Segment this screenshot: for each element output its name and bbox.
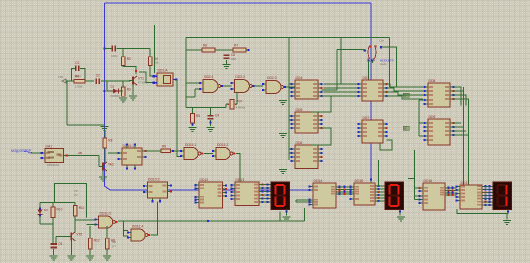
wire DD9 out 2 [454,130,467,132]
svg-text:Cur: Cur [379,39,384,43]
wire DD16 feed vert [414,150,416,200]
svg-text:DD17: DD17 [461,181,470,185]
svg-text:R11: R11 [79,206,85,210]
current source G1 [364,39,394,66]
ground R3 [119,98,127,103]
wire bus to DD17 b [468,99,470,190]
wire DD13-HG1 4 [263,198,272,200]
7-segment display HG2 [385,182,404,210]
svg-text:R8: R8 [108,139,112,143]
wire DD9 in2 [419,135,423,137]
wire DD13-HG1 0 [263,184,272,186]
wire DD14-DD15 0 [340,186,351,188]
wire cur bottom pin1 [368,61,370,81]
wire DD13-HG1 1 [263,187,272,189]
wire C6 down [226,60,228,64]
wire col1 stub y116 [289,115,292,117]
resistor R10 [51,207,62,218]
wire DD9 in stub [419,122,423,124]
capacitor C7 [111,46,118,58]
resistor R5 [191,114,201,123]
wire rail up a [279,212,281,221]
counter DD5 [290,108,322,133]
ground R12 [86,256,94,261]
wire base from C5 [55,236,57,243]
wire DD8 out 2 [454,95,467,106]
nand gate DD2:1 [199,75,223,93]
resistor R13 [105,238,115,249]
label HB [78,151,82,155]
wire DD2:1 in2 [195,88,200,90]
wire DD17-HG3 6 [486,204,494,206]
wire DD11:4 in feed [124,221,128,236]
wire DD8 out 1 [454,91,464,106]
counter DD4 [290,76,322,99]
wire D1 left [107,81,111,91]
logic state pin blue rail [103,47,105,92]
wire C4 top [210,108,212,115]
resistor R3 [121,87,131,96]
wire cur left pin [337,48,365,50]
wire R11 top [74,202,76,205]
7-segment display HG1 [271,182,290,210]
svg-text:DD11:4: DD11:4 [132,225,143,229]
wire R13 top [106,226,108,238]
svg-text:DD10:2: DD10:2 [148,178,160,182]
wire DD13 clk [239,179,241,182]
wire to TA2 base [98,156,100,167]
logic probe 0 a [403,93,409,97]
wire crystal left [226,103,228,105]
svg-text:DD2:2: DD2:2 [235,75,245,79]
svg-text:1.00k: 1.00k [75,85,83,89]
wire DD8-DD9 chain [419,99,423,101]
wire DD15-HG2 3 [379,194,386,196]
resistor R4 [148,57,159,66]
logic state pin VT1 c [135,70,137,72]
wire DD8 out 0 [454,87,462,106]
svg-text:K554CA3: K554CA3 [47,163,59,167]
svg-text:R10: R10 [57,208,63,212]
wire DD5 chain [311,128,331,145]
wire C1 right [80,68,85,79]
nand gate DD11:2 [212,143,235,160]
nand gate DD2:2 [230,75,254,93]
wire DD14 feed [295,200,297,202]
svg-text:DD12: DD12 [200,178,209,182]
wire C5 down [53,249,55,255]
wire DD2:3 out [286,86,295,88]
wire HG3 common [457,209,508,214]
logic probe 0 b [403,126,409,130]
wire DD17-HG3 1 [486,188,494,190]
ground VT1 [129,96,137,101]
svg-text:DD11:1: DD11:1 [185,143,196,147]
wire R8 to TA2 [104,148,106,163]
wire col1 stub y149 [289,148,292,150]
flip-flop DD10:2 [143,178,172,203]
svg-text:DD10:1: DD10:1 [123,144,135,148]
resistor R6 [202,44,215,52]
wire VD2 down [39,216,41,224]
wire DD17-HG3 4 [486,198,494,200]
capacitor C4 [208,114,220,120]
wire gate in2 [87,223,96,225]
svg-text:R1: R1 [75,75,79,79]
counter DD17 [455,181,486,209]
ground TA2 [99,177,107,182]
blue bus horizontal to DD12/DD14 [110,189,313,191]
wire DD8 out 3 [454,99,469,106]
wire DD17-HG3 0 [486,185,494,187]
wire osc left rail [185,50,187,108]
wire DD2:2 out [254,85,263,87]
svg-text:DD13: DD13 [236,178,245,182]
wire DD15-HG2 1 [379,188,386,190]
wire DD17-HG3 3 [486,195,494,197]
wire DD16 top corner [408,178,420,188]
diode D1 [111,85,121,99]
wire DD17-HG3 5 [486,201,494,203]
wire DD9 out 1 [454,126,464,128]
wire R10 top [52,202,54,207]
wire DD9 out 3 [454,134,469,136]
wire DA1 out [67,155,99,157]
wire in2 link [186,96,195,98]
wire R8 top [104,131,106,138]
svg-text:HB: HB [78,151,82,155]
logic state pin C4 [209,121,211,123]
wire R11 to VT5 [74,216,76,232]
wire supply to C7 [105,48,112,50]
logic state HG1 [286,211,288,213]
logic state long rail [207,220,209,222]
wire cur bottom pin2 [371,61,373,64]
resistor R1 [74,75,85,89]
nand gate DD11:4 [127,225,150,242]
svg-text:DD2:3: DD2:3 [267,76,277,80]
counter DD8 [423,79,454,107]
svg-text:DD11:2: DD11:2 [217,143,228,147]
ground C4 [207,127,215,132]
label test point [74,189,79,197]
wire col2 top feed [340,38,342,85]
svg-text:DD6: DD6 [296,141,303,145]
7-segment display HG3 [493,182,512,210]
wire col3 left vert [418,100,420,136]
wire DD13-HG1 2 [263,191,272,193]
wire R4 to DD1 in [150,66,154,77]
wire feedback up to DD2:2 [236,93,238,105]
svg-text:VT5: VT5 [76,232,82,236]
logic state HG2 [399,211,401,213]
wire R6 feed vertical [185,38,187,51]
wire col1 stub y84 [289,83,292,85]
transistor VT5 [67,232,82,241]
wire crystal left elbow [225,104,227,108]
svg-text:DD16: DD16 [424,179,433,183]
svg-text:R6: R6 [203,44,207,48]
nand gate DD2:3 [262,76,286,94]
resistor R2 [121,57,131,66]
wire R12 down [89,249,91,255]
wire DD7b chain [380,140,392,150]
wire TA2 to DD10:1 [108,152,119,154]
capacitor C1 [74,61,81,78]
wire DD15 out drop [377,160,379,186]
ground C6 [223,64,231,69]
wire TA2 base stub [99,166,101,168]
wire DD7-DD8 ladder 0 [387,84,424,87]
svg-text:R3: R3 [127,88,131,92]
svg-text:TPA: TPA [58,75,63,79]
wire crystal right [236,103,238,105]
wire DD16 in a [415,195,420,197]
svg-text:R12: R12 [94,239,100,243]
resistor R12 [88,238,99,249]
wire DD14-DD15 2 [340,191,351,193]
wire DD17-HG3 2 [486,192,494,194]
wire DD16-DD17 2 [449,192,457,194]
wire DD2:1 in1 [186,82,200,84]
label bottom note [112,240,117,248]
wire R10 down [52,218,54,244]
comparator DA1 [41,144,68,162]
svg-text:DD2:1: DD2:1 [204,75,214,79]
counter DD7b [357,116,387,143]
resistor R8 [103,138,113,148]
svg-text:НВ: НВ [112,240,116,244]
wire cur right pin [381,47,396,87]
svg-text:DD14: DD14 [314,179,323,183]
flip-flop DD10:1 [117,143,146,169]
wire C1 left [72,68,75,81]
capacitor C5 body [51,243,57,248]
wire DD13-HG1 3 [263,194,272,196]
wire DD14 in a [296,199,310,201]
blue net top border [105,2,372,4]
counter DD13 [230,178,263,206]
wire bus to DD17 a [463,87,465,187]
ground input rail [101,126,109,131]
svg-text:DD4: DD4 [296,76,303,80]
wire col2 stub y96 [324,95,358,97]
resistor R11 [73,205,84,216]
wire R11 tap to gate [75,219,95,221]
wire col2 stub y84 [324,83,358,85]
wire DD2:1 out [223,85,231,87]
wire osc feedback rail [186,107,226,109]
svg-text:C5: C5 [58,242,62,246]
svg-text:mode: mode [380,62,387,66]
wire label to DA1 [31,152,42,154]
svg-text:DD5: DD5 [296,108,303,112]
svg-text:KD503: KD503 [111,94,121,98]
wire in2 drop [194,89,196,97]
wire VT5 emitter [70,240,72,255]
svg-text:DD15: DD15 [355,179,364,183]
svg-text:R9: R9 [162,144,166,148]
wire HG1 common [286,209,288,215]
wire HG3 gnd stub [506,214,508,220]
svg-text:C4: C4 [215,114,219,118]
wire DD13-HG1 5 [263,201,272,203]
capacitor C6 [224,53,237,61]
svg-text:D2: D2 [44,208,48,212]
wire DD16-DD17 0 [449,187,457,189]
wire R4 top [149,49,151,57]
svg-text:DD7: DD7 [363,116,370,120]
nand gate DD11:1 [180,143,203,160]
wire DD9 out 0 [454,122,462,124]
wire cur-dd4 vert [336,49,338,90]
counter DD15 [349,178,379,205]
wire DD16-DD17 3 [449,194,457,196]
svg-text:C2: C2 [96,74,100,78]
capacitor C5 plate [51,242,63,248]
wire DD16 in b [415,199,420,201]
wire bottom gnd rail [67,124,104,126]
ground R13 [103,256,111,261]
svg-text:R2: R2 [127,57,131,61]
wire DD7-DD8 ladder 1 [387,88,424,91]
wire DD14-DD15 1 [340,189,351,191]
svg-text:680: 680 [231,57,236,61]
counter DD6 [290,141,322,169]
wire DD15-HG2 5 [379,200,386,202]
svg-text:D1: D1 [111,85,115,89]
zener diode VD2 [38,208,49,217]
wire R5 down [192,123,194,126]
ground HG2 [397,217,405,222]
svg-text:TA2: TA2 [108,163,114,167]
counter DD14 [308,179,340,208]
wire rail up b [304,208,306,221]
wire R6 left [186,49,202,51]
svg-text:R5: R5 [196,114,200,118]
counter DD16 [418,179,449,210]
wire col1 left bus [288,38,290,161]
ground HG1 [283,217,291,222]
counter DD12 [194,178,227,208]
wire DD16-DD17 1 [449,190,457,192]
logic state pin R9 [172,150,174,152]
wire DD11:1 out [204,153,214,155]
wire DD4 chain [311,96,331,112]
wire long clock rail [118,220,305,222]
wire cur to DD4 [322,89,338,91]
svg-text:DD9: DD9 [429,115,436,119]
blue net left vertical [105,3,111,190]
wire DD1:A supply [154,25,156,73]
wire VD2 to gnd rail [40,223,53,225]
crystal ZQ1 [227,99,245,110]
svg-text:DD8: DD8 [429,79,436,83]
wire C2 to base [101,80,131,82]
nand gate DD11:3 [95,212,118,229]
wire to DD6 column [389,38,391,88]
svg-text:100n: 100n [111,54,118,58]
wire col1 stub y120 [289,119,292,121]
resistor R7 [233,44,246,52]
wire DD10 to R9 [146,150,162,152]
ground DD4 [279,100,287,105]
transistor TA2 [99,162,114,171]
logic state pin R5 [191,123,193,125]
logic state HG3 [507,211,509,213]
svg-text:DA1: DA1 [46,144,53,148]
svg-text:DD1:A: DD1:A [158,69,169,73]
ground VT5 [67,256,75,261]
ground C5 [50,256,58,261]
svg-text:R7: R7 [234,44,238,48]
input terminal TPA [58,75,66,83]
counter DD7 [357,76,387,101]
wire input down [66,81,68,125]
schmitt trigger DD1:A [153,69,178,87]
wire R2 to VT1 collector [123,66,136,75]
wire R13 down [106,249,108,255]
wire DD15-HG2 0 [379,185,386,187]
wire DD14-DD15 3 [340,193,351,195]
ground DD5 [279,133,287,138]
wire R5 top [192,108,194,114]
wire R10 R11 top rail [40,201,75,203]
resistor R9 [161,144,171,152]
wire DD1:A out down [177,80,181,157]
wire R1 to C2 [85,80,94,82]
blue net right vertical [370,3,372,183]
wire VT1 emitter [132,85,134,96]
ground HG3 [503,220,511,225]
wire VT5 base [56,235,67,237]
wire col1 stub y88 [289,87,292,89]
wire R3 top [122,81,124,87]
wire HG2 common [399,209,401,215]
wire R7 right [246,49,249,51]
wire D1 right [121,90,124,92]
wire R12 top [89,226,91,238]
wire C4 down [210,120,212,126]
wire test box [55,183,87,217]
wire DD7-DD8 ladder 3 [387,96,424,99]
wire VD2 top [39,202,41,208]
wire TA2 emitter [102,171,104,177]
wire DD11:4 in1 [124,230,128,232]
counter DD9 [423,115,454,145]
wire DD15-HG2 4 [379,197,386,199]
wire VT1 to DD1 in2 [139,72,154,83]
wire input to R1 [66,80,74,82]
logic state pin R7 [247,49,249,51]
label DA1 type [47,151,61,167]
svg-text:4.4MHz: 4.4MHz [236,106,246,110]
transistor VT1 [129,76,149,85]
ground DD6 [279,169,287,174]
wire DD14 in b [296,201,310,203]
svg-text:DD11:3: DD11:3 [100,212,111,216]
wire DD11:4 out [151,201,158,235]
wire col2 stub y88 [324,87,358,89]
wire col1 stub y153 [289,152,292,154]
wire R6-R7 [215,49,233,51]
net label MODULATOR [11,149,32,153]
wire R9 to DD11:1 [171,150,182,152]
svg-text:C1: C1 [75,61,79,65]
wire DD11:2 out [236,154,241,180]
wire C7 right [117,48,151,50]
wire R2 top [122,49,124,57]
